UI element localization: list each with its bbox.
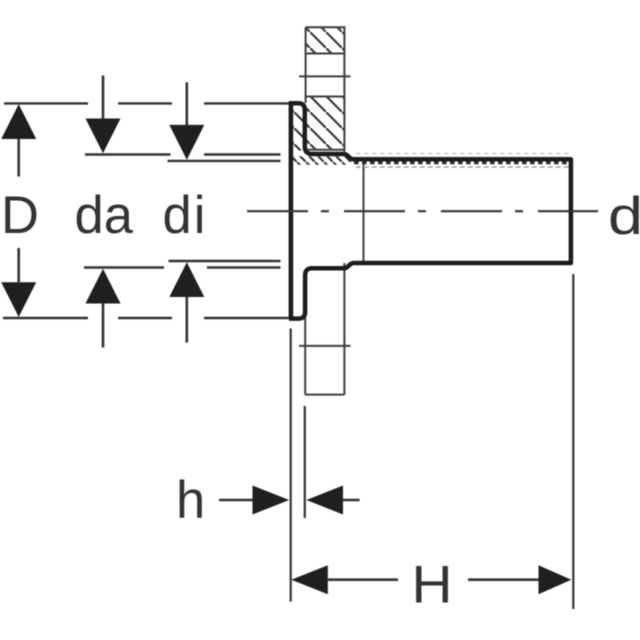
svg-text:D: D — [1, 186, 39, 245]
pipe serration (dark teeth under top edge) — [354, 161, 569, 164]
arrow D down — [1, 248, 36, 317]
arrow da down — [86, 76, 121, 154]
pipe serration (faint lower row) — [356, 166, 569, 168]
di dimension line (top) — [168, 160, 281, 162]
svg-text:H: H — [412, 556, 453, 615]
svg-text:da: da — [75, 186, 134, 245]
arrow h left (points right) — [219, 486, 289, 515]
pipe serration (faint crest row above top edge) — [356, 153, 569, 155]
backing flange upper section: hatch band 1 — [307, 28, 344, 54]
backing flange outline (bottom, exterior view) — [305, 263, 344, 395]
D top extension line — [4, 102, 289, 104]
arrow h right (points left) — [306, 486, 359, 515]
pipe weld joint line — [363, 161, 365, 262]
bolt hole centerline (bottom flange) — [299, 345, 351, 347]
da dimension line (top) — [85, 153, 281, 155]
stub end + pipe thick outline — [289, 103, 571, 318]
centerline (dash-dot) — [247, 210, 598, 212]
di dimension line (bottom) — [169, 260, 281, 262]
h extension line (right) — [304, 406, 306, 518]
stub-end collar section hatch strip — [293, 105, 303, 151]
H extension line (right) — [572, 274, 574, 609]
backing flange outline (top) — [306, 26, 345, 151]
svg-text:di: di — [163, 186, 208, 245]
D bottom extension line — [3, 317, 289, 319]
arrow H right (points right) — [468, 565, 571, 594]
bolt hole centerline (top flange) — [299, 75, 351, 77]
stub-end weld-zone hatch sliver — [292, 156, 351, 165]
arrow da up — [86, 269, 121, 348]
svg-text:d: d — [608, 187, 640, 246]
h extension line (left, on sealing face axis) — [290, 329, 292, 602]
stub end sealing face (left) — [289, 101, 294, 318]
arrow D up — [1, 104, 36, 176]
backing flange upper section: hatch band 2 — [307, 98, 344, 151]
arrow di down — [169, 82, 204, 159]
arrow H left (points left) — [291, 565, 398, 594]
da dimension line (bottom) — [84, 266, 281, 268]
svg-text:h: h — [176, 471, 205, 530]
arrow di up — [169, 262, 204, 342]
